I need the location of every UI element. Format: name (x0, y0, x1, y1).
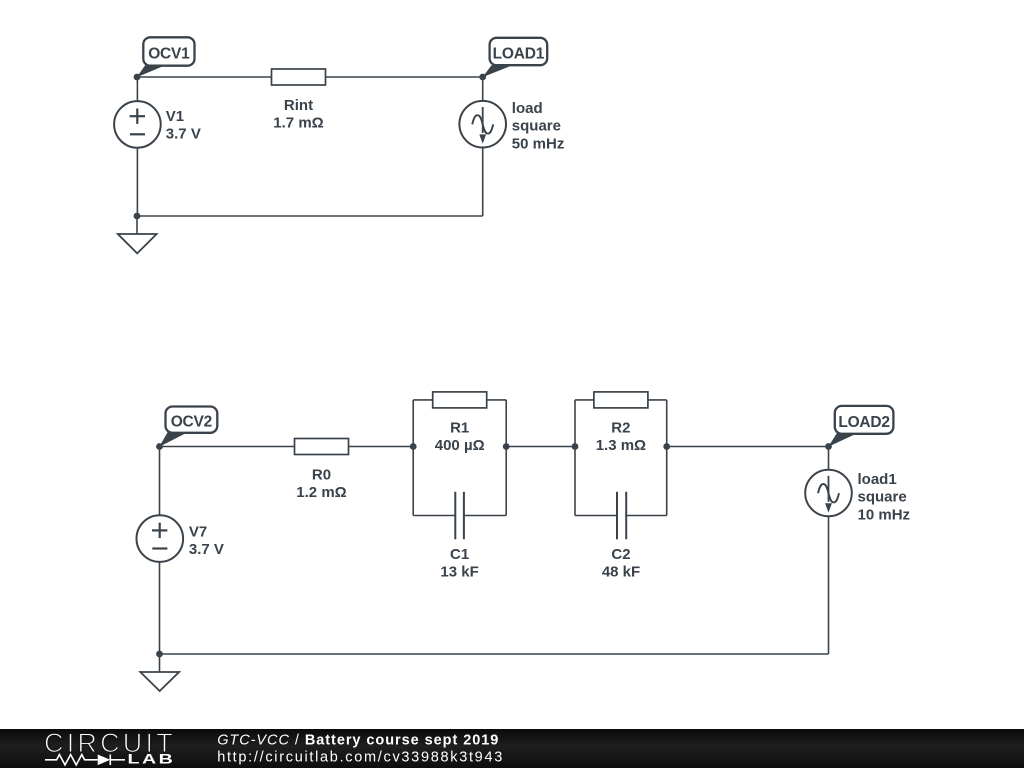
svg-text:square: square (858, 489, 907, 506)
svg-text:LAB: LAB (128, 751, 176, 767)
parallel block 2: bottom rail left stub (575, 515, 617, 517)
node dot right of block 2 (663, 443, 670, 450)
node junction dot (ground, circuit 2) (156, 651, 163, 658)
node junction dot (ground, circuit 1) (134, 213, 141, 220)
svg-text:square: square (512, 118, 561, 135)
node label OCV2 (159, 407, 217, 447)
svg-text:1.3 mΩ: 1.3 mΩ (596, 437, 646, 454)
CircuitLab logo resistor-diode glyph (45, 755, 125, 766)
ground (circuit 1) (118, 216, 157, 253)
svg-text:GTC-VCC / Battery course sept: GTC-VCC / Battery course sept 2019 (217, 732, 499, 748)
node label LOAD2 (828, 406, 893, 447)
wire load1 bottom to rail (828, 516, 830, 654)
wire bottom rail circuit 2 (160, 653, 829, 655)
svg-text:V1: V1 (166, 108, 184, 125)
node LOAD1 junction dot (479, 74, 486, 81)
wire top rail left (OCV1 to Rint) (137, 76, 272, 78)
footer bar (0, 729, 1024, 768)
svg-text:400 µΩ: 400 µΩ (435, 437, 485, 454)
resistor R2 (594, 392, 648, 454)
svg-text:Rint: Rint (284, 97, 313, 114)
svg-text:50 mHz: 50 mHz (512, 135, 565, 152)
svg-text:OCV2: OCV2 (171, 414, 212, 431)
wire bottom rail circuit 1 (137, 215, 483, 217)
parallel block 2: bottom rail right stub (626, 515, 667, 517)
parallel block 1: top rail left stub (413, 399, 433, 401)
wire I1 top stub (482, 77, 484, 101)
node dot left of block 1 (410, 443, 417, 450)
svg-text:R1: R1 (450, 420, 469, 437)
ground (circuit 2) (140, 654, 179, 691)
svg-text:3.7 V: 3.7 V (189, 541, 224, 558)
svg-text:R2: R2 (611, 420, 630, 437)
svg-text:load1: load1 (858, 471, 897, 488)
parallel block 1: top rail right stub (487, 399, 507, 401)
wire V7 top stub (159, 447, 161, 516)
current source load1 (I2) (805, 470, 910, 524)
svg-text:3.7 V: 3.7 V (166, 126, 201, 143)
wire I1 bottom to rail (482, 148, 484, 217)
svg-text:C1: C1 (450, 546, 469, 563)
node LOAD2 junction dot (825, 443, 832, 450)
svg-text:13 kF: 13 kF (440, 563, 478, 580)
svg-text:http://circuitlab.com/cv33988k: http://circuitlab.com/cv33988k3t943 (217, 750, 504, 766)
svg-text:48 kF: 48 kF (602, 563, 640, 580)
resistor R0 (295, 439, 349, 502)
parallel block 1: bottom rail right stub (464, 515, 506, 517)
svg-text:R0: R0 (312, 467, 331, 484)
capacitor C1 (440, 492, 478, 581)
parallel block 1: left vertical wire (412, 400, 414, 516)
node dot left of block 2 (572, 443, 579, 450)
resistor R1 (433, 392, 487, 454)
node label LOAD1 (483, 38, 548, 78)
parallel block 2: right vertical wire (666, 400, 668, 516)
node label OCV1 (137, 37, 195, 77)
resistor Rint (272, 69, 326, 132)
node dot right of block 1 (503, 443, 510, 450)
wire OCV2 to R0 (160, 446, 295, 448)
svg-text:LOAD1: LOAD1 (493, 45, 545, 62)
wire V1 top stub (136, 77, 138, 101)
wire load1 top stub (828, 447, 830, 470)
voltage source V1 (114, 101, 201, 148)
capacitor C2 (602, 492, 640, 581)
node OCV2 junction dot (156, 443, 163, 450)
wire top rail right (Rint to LOAD1) (326, 76, 483, 78)
svg-text:C2: C2 (611, 546, 630, 563)
svg-text:V7: V7 (189, 524, 207, 541)
voltage source V7 (137, 515, 224, 562)
svg-text:OCV1: OCV1 (148, 45, 190, 62)
wire V1 bottom to rail (136, 148, 138, 216)
svg-text:1.2 mΩ: 1.2 mΩ (296, 484, 346, 501)
wire RC block1 to RC block2 (506, 446, 575, 448)
parallel block 1: right vertical wire (505, 400, 507, 516)
wire RC block2 to LOAD2 (667, 446, 829, 448)
svg-text:1.7 mΩ: 1.7 mΩ (273, 115, 323, 132)
svg-text:LOAD2: LOAD2 (838, 414, 890, 431)
parallel block 2: top rail right stub (648, 399, 667, 401)
wire R0 to RC block 1 (349, 446, 414, 448)
parallel block 2: left vertical wire (574, 400, 576, 516)
svg-text:load: load (512, 100, 543, 117)
wire V7 bottom to rail (159, 562, 161, 654)
svg-text:10 mHz: 10 mHz (858, 506, 911, 523)
node OCV1 junction dot (134, 74, 141, 81)
current source load (I1) (459, 100, 564, 152)
parallel block 1: bottom rail left stub (413, 515, 455, 517)
parallel block 2: top rail left stub (575, 399, 594, 401)
